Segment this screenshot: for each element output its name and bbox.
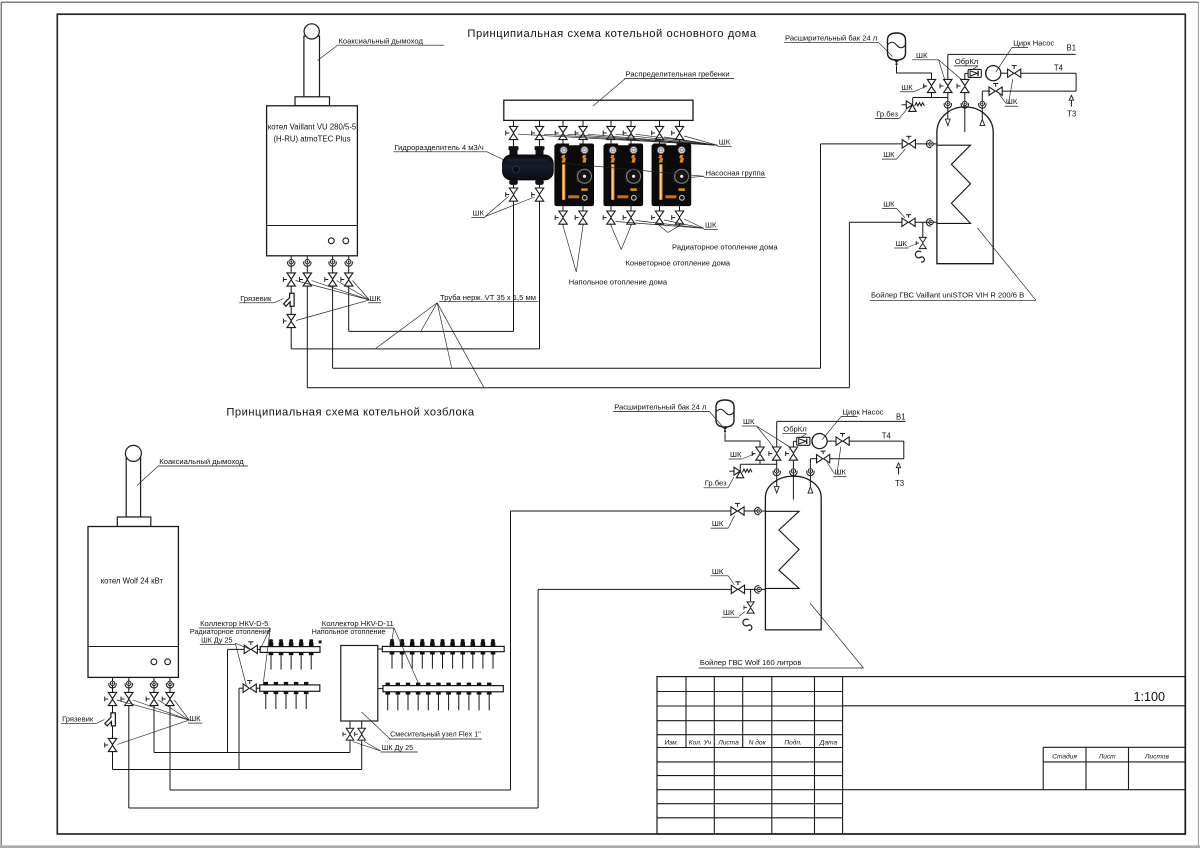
run to mixing right bbox=[113, 769, 362, 771]
collector outlet bbox=[284, 691, 289, 694]
collector knob bbox=[440, 639, 445, 646]
valve below dirt trap bbox=[283, 314, 295, 327]
collector knob bbox=[390, 639, 395, 646]
collector outlet bbox=[289, 652, 294, 655]
dirt trap Грязевик (top) bbox=[284, 293, 295, 306]
collector knob bbox=[279, 639, 284, 646]
manifold stub pipe bbox=[679, 120, 681, 143]
svg-text:(H-RU) atmoTEC Plus: (H-RU) atmoTEC Plus bbox=[273, 135, 350, 144]
valve ШК under separator left bbox=[506, 188, 518, 201]
valve ШК module outlet bbox=[672, 211, 684, 224]
collector cap bbox=[416, 683, 420, 686]
pump group module 3 bbox=[652, 144, 691, 206]
drain hook (top tank) bbox=[915, 251, 924, 262]
svg-text:Гидроразделитель 4 м3/ч: Гидроразделитель 4 м3/ч bbox=[395, 143, 484, 152]
cold stub into Wolf tank bbox=[776, 421, 778, 447]
svg-text:ОбрКл: ОбрКл bbox=[783, 425, 806, 434]
return loop right (bottom) bbox=[903, 441, 905, 459]
svg-text:Принципиальная схема котельн: Принципиальная схема котельной хозблока bbox=[226, 406, 475, 418]
valve ШК module outlet bbox=[575, 211, 587, 224]
svg-text:ШК: ШК bbox=[369, 294, 381, 303]
svg-text:Расширительный бак 24 л: Расширительный бак 24 л bbox=[785, 33, 877, 42]
collector cap bbox=[304, 682, 308, 685]
svg-text:B1: B1 bbox=[896, 413, 906, 422]
svg-text:котел Wolf 24 кВт: котел Wolf 24 кВт bbox=[101, 576, 164, 585]
valve ШК under manifold bbox=[506, 126, 518, 139]
svg-text:Смесительный узел Flex 1": Смесительный узел Flex 1" bbox=[390, 730, 481, 739]
collector cap bbox=[457, 683, 461, 686]
collector HKV-D-11 return bar bbox=[383, 686, 503, 692]
collector knob bbox=[410, 639, 415, 646]
svg-text:Т4: Т4 bbox=[882, 431, 892, 440]
module outlet pipe bbox=[610, 206, 612, 226]
svg-text:Подп.: Подп. bbox=[784, 739, 802, 747]
manifold stub pipe bbox=[513, 120, 515, 146]
svg-text:Кол. Уч: Кол. Уч bbox=[689, 740, 712, 747]
valve ШК expansion line bbox=[924, 79, 936, 92]
pump group module 1 bbox=[555, 144, 594, 206]
valve ШК expansion (bottom) bbox=[752, 447, 764, 460]
pump group module 2 bbox=[604, 144, 643, 206]
collector outlet bbox=[294, 691, 299, 694]
leader V to heating circuit bbox=[611, 226, 621, 250]
manifold stub pipe bbox=[562, 120, 564, 143]
collector outlet bbox=[279, 652, 284, 655]
svg-text:Расширительный бак 24 л: Расширительный бак 24 л bbox=[614, 402, 706, 411]
safety group Гр.без (bottom) bbox=[739, 464, 741, 471]
valve ШК Wolf tank lower bbox=[731, 582, 744, 594]
union bbox=[304, 259, 311, 266]
svg-text:ШК: ШК bbox=[1006, 97, 1018, 106]
outer sheet border bbox=[1, 1, 1198, 3]
valve ШК under manifold bbox=[532, 126, 544, 139]
Wolf tank coil bbox=[765, 511, 799, 588]
svg-text:ОбрКл: ОбрКл bbox=[955, 57, 978, 66]
boiler Wolf indicator lights bbox=[151, 659, 157, 665]
collector cap bbox=[264, 682, 268, 685]
pipe to safety line (bottom) bbox=[759, 460, 761, 464]
svg-text:Коаксиальный дымоход: Коаксиальный дымоход bbox=[159, 457, 244, 466]
collector HKV-D-5 supply bar bbox=[260, 647, 320, 653]
pipe from Wolf boiler bbox=[153, 677, 155, 752]
collector knob bbox=[269, 639, 274, 646]
valve below dirt trap (bottom) bbox=[105, 738, 117, 751]
svg-text:Распределительная гребенки: Распределительная гребенки bbox=[626, 69, 730, 78]
svg-text:ШК: ШК bbox=[896, 239, 908, 248]
valve ШК bbox=[121, 692, 133, 705]
hot stub from Wolf tank bbox=[792, 441, 794, 447]
collector outlet bbox=[491, 652, 496, 655]
collector knob bbox=[289, 639, 294, 646]
svg-text:1:100: 1:100 bbox=[1133, 690, 1165, 704]
module outlet pipe bbox=[659, 206, 661, 226]
hydraulic separator caps bottom bbox=[510, 180, 518, 185]
svg-text:Грязевик: Грязевик bbox=[62, 714, 94, 723]
svg-text:Конветорное отопление дома: Конветорное отопление дома bbox=[626, 259, 731, 268]
riser to Wolf tank upper bbox=[510, 511, 512, 790]
pipe run to tank lower bbox=[307, 387, 849, 389]
collector outlet bbox=[274, 691, 279, 694]
union tank lower bbox=[926, 219, 933, 226]
run to Wolf tank upper bbox=[170, 789, 511, 791]
cold water stub into tank bbox=[947, 54, 949, 79]
svg-text:Грязевик: Грязевик bbox=[240, 294, 272, 303]
collector outlet bbox=[269, 652, 274, 655]
valve ШК under manifold bbox=[652, 126, 664, 139]
svg-text:Изм.: Изм. bbox=[664, 740, 678, 747]
collector outlet bbox=[481, 652, 486, 655]
collector cap bbox=[294, 682, 298, 685]
boiler Vaillant body bbox=[267, 106, 358, 256]
mixing to collector2 stubs bbox=[378, 648, 383, 650]
svg-text:Дата: Дата bbox=[819, 740, 838, 747]
collector cap bbox=[446, 683, 450, 686]
collector cap bbox=[386, 683, 390, 686]
expansion tank (bottom) bbox=[716, 400, 734, 432]
expansion tank pipe (bottom) bbox=[725, 433, 760, 448]
valve ШК return (bottom) bbox=[817, 451, 830, 463]
boiler Vaillant indicator lights bbox=[328, 238, 334, 244]
svg-text:Цирк Насос: Цирк Насос bbox=[1013, 38, 1054, 47]
collector knob bbox=[299, 639, 304, 646]
collector outlet bbox=[456, 692, 461, 695]
mixing unit outlet pipes bbox=[349, 721, 351, 753]
valve ШК bbox=[162, 692, 174, 705]
valve ШК module outlet bbox=[555, 211, 567, 224]
valve ШК bbox=[325, 273, 337, 286]
svg-text:ШК: ШК bbox=[883, 150, 895, 159]
valve ШК under manifold bbox=[672, 126, 684, 139]
collector outlet bbox=[400, 652, 405, 655]
collector knob bbox=[481, 639, 486, 646]
boiler Wolf pedestal bbox=[117, 517, 151, 527]
tank lower connection pipe bbox=[849, 221, 937, 223]
pipe from Wolf boiler bbox=[112, 677, 114, 769]
svg-text:Коаксиальный дымоход: Коаксиальный дымоход bbox=[339, 36, 424, 45]
boiler Vaillant chimney tube bbox=[304, 36, 320, 97]
svg-text:N док: N док bbox=[749, 739, 767, 747]
union bbox=[125, 681, 132, 688]
svg-text:B1: B1 bbox=[1067, 44, 1077, 53]
svg-text:Т3: Т3 bbox=[1067, 110, 1076, 119]
svg-text:ШК: ШК bbox=[189, 714, 201, 723]
collector HKV-D-5 return bar bbox=[260, 685, 320, 691]
collector outlet bbox=[416, 692, 421, 695]
expansion tank (top) bbox=[888, 33, 906, 65]
collector knob bbox=[491, 639, 496, 646]
T3 arrow (top) bbox=[1070, 99, 1072, 107]
riser to Wolf tank lower bbox=[537, 589, 539, 808]
pipe run to tank upper bbox=[333, 367, 821, 369]
run to Wolf tank lower bbox=[129, 807, 538, 809]
module outlet pipe bbox=[630, 206, 632, 226]
module outlet pipe bbox=[562, 206, 564, 226]
union tank upper bbox=[926, 140, 933, 147]
collector outlet bbox=[446, 692, 451, 695]
svg-text:ШК: ШК bbox=[883, 199, 895, 208]
collector knob bbox=[430, 639, 435, 646]
svg-text:Т4: Т4 bbox=[1054, 63, 1064, 72]
valve return collector1 bbox=[239, 687, 244, 689]
collector outlet bbox=[309, 652, 314, 655]
svg-text:ШК: ШК bbox=[835, 468, 847, 477]
union Wolf tank upper bbox=[755, 507, 762, 514]
boiler Wolf panel line bbox=[88, 646, 178, 648]
return into tank stub bbox=[982, 90, 990, 92]
valve ШК under manifold bbox=[575, 126, 587, 139]
hot water stub from tank bbox=[964, 73, 966, 79]
svg-text:ШК: ШК bbox=[473, 209, 485, 218]
riser collector1 return bbox=[238, 688, 240, 769]
svg-text:Листов: Листов bbox=[1144, 753, 1170, 760]
valve ШК Wolf tank upper bbox=[731, 503, 744, 515]
manifold stub pipe bbox=[610, 120, 612, 143]
pipe from Wolf boiler bbox=[169, 677, 171, 790]
dirt trap Грязевик (bottom) bbox=[105, 713, 116, 726]
union bbox=[345, 259, 352, 266]
svg-text:ШК: ШК bbox=[743, 417, 755, 426]
svg-text:ШК: ШК bbox=[901, 83, 913, 92]
svg-text:Листа: Листа bbox=[717, 740, 739, 747]
leader V to heating circuit bbox=[563, 226, 576, 272]
svg-text:ШК Ду 25: ШК Ду 25 bbox=[382, 743, 413, 752]
collector outlet bbox=[426, 692, 431, 695]
svg-text:Труба нерж. VT 35 х 1,5 мм: Труба нерж. VT 35 х 1,5 мм bbox=[440, 293, 536, 302]
chimney cap circle bbox=[304, 24, 319, 39]
safety group Гр.без (top) bbox=[912, 98, 914, 106]
distribution manifold bbox=[504, 100, 693, 120]
collector outlet bbox=[264, 691, 269, 694]
chimney cap circle (Wolf) bbox=[125, 445, 141, 461]
collector outlet bbox=[304, 691, 309, 694]
svg-text:Стадия: Стадия bbox=[1052, 752, 1077, 760]
collector outlet bbox=[396, 692, 401, 695]
svg-text:ШК: ШК bbox=[916, 51, 928, 60]
union bbox=[150, 681, 157, 688]
collector outlet bbox=[390, 652, 395, 655]
title block outline bbox=[657, 677, 1185, 834]
manifold stub pipe bbox=[582, 120, 584, 143]
title block rows left bbox=[657, 691, 843, 693]
valve ШК under manifold bbox=[623, 126, 635, 139]
collector knob bbox=[450, 639, 455, 646]
check valve ОбрКл (bottom) bbox=[797, 437, 810, 445]
svg-text:Гр.без: Гр.без bbox=[876, 110, 898, 119]
collector cap bbox=[406, 683, 410, 686]
Wolf tank drain pipe bbox=[750, 589, 752, 601]
svg-text:ШК: ШК bbox=[730, 450, 742, 459]
valve ШК drain (top tank) bbox=[916, 237, 926, 248]
svg-text:ШК: ШК bbox=[705, 220, 717, 229]
svg-text:Принципиальная схема котельн: Принципиальная схема котельной основного… bbox=[467, 28, 756, 40]
boiler Vaillant pedestal bbox=[295, 97, 330, 106]
manifold stub pipe bbox=[630, 120, 632, 143]
svg-text:Бойлер ГВС Vaillant uniSTOR VI: Бойлер ГВС Vaillant uniSTOR VIH R 200/6 … bbox=[871, 291, 1024, 300]
valve ШК after pump (bottom) bbox=[827, 440, 836, 442]
valve ШК module outlet bbox=[603, 211, 615, 224]
riser collector1 supply bbox=[227, 649, 229, 752]
union bbox=[288, 259, 295, 266]
hydraulic separator body bbox=[503, 155, 554, 180]
valve ШК bbox=[105, 692, 117, 705]
circulation pump (bottom) bbox=[812, 434, 827, 449]
valve ШК return (top) bbox=[989, 84, 1002, 96]
circulation pump (top) bbox=[986, 66, 1001, 81]
svg-text:Т3: Т3 bbox=[895, 479, 904, 488]
pipe from boiler bbox=[290, 256, 292, 349]
pipe from boiler bbox=[348, 256, 350, 332]
B1 line (bottom) bbox=[777, 420, 905, 422]
hydraulic separator stacks top bbox=[509, 147, 518, 150]
return into Wolf tank stub bbox=[810, 458, 817, 460]
collector cap bbox=[284, 682, 288, 685]
tank upper connection pipe bbox=[821, 143, 937, 145]
collector cap bbox=[426, 683, 430, 686]
Wolf tank lower connection bbox=[538, 588, 765, 590]
collector end dot bbox=[319, 641, 322, 644]
valve ШК tank upper bbox=[902, 136, 915, 148]
collector outlet bbox=[420, 652, 425, 655]
collector outlet bbox=[471, 652, 476, 655]
svg-text:ШК: ШК bbox=[712, 519, 724, 528]
svg-text:Бойлер ГВС Wolf 160 литров: Бойлер ГВС Wolf 160 литров bbox=[700, 658, 802, 667]
T3 arrow (bottom) bbox=[898, 467, 900, 475]
collector outlet bbox=[436, 692, 441, 695]
pipe from boiler bbox=[332, 256, 334, 368]
collector outlet bbox=[467, 692, 472, 695]
boiler Wolf chimney tube bbox=[126, 458, 140, 517]
valve ШК bbox=[283, 273, 295, 286]
union bbox=[329, 259, 336, 266]
union bbox=[109, 681, 116, 688]
valve ШК module outlet bbox=[652, 211, 664, 224]
mixing unit box bbox=[341, 646, 378, 722]
title block columns bbox=[685, 677, 687, 748]
pipe run to separator left bbox=[349, 330, 514, 332]
run to mixing left bbox=[154, 752, 350, 754]
collector outlet bbox=[440, 652, 445, 655]
valve ШК under separator right bbox=[532, 188, 544, 201]
collector cap bbox=[436, 683, 440, 686]
valve ШК mixing right bbox=[355, 728, 366, 740]
T4 line (bottom) bbox=[849, 440, 904, 442]
T4 line (top) bbox=[1021, 72, 1076, 74]
return loop right (top) bbox=[1075, 73, 1077, 91]
module outlet pipe bbox=[582, 206, 584, 226]
Wolf tank upper connection bbox=[511, 510, 766, 512]
title block rows right bbox=[843, 705, 1186, 707]
manifold stub pipe bbox=[659, 120, 661, 143]
collector outlet bbox=[430, 652, 435, 655]
collector knob bbox=[420, 639, 425, 646]
svg-text:ШК: ШК bbox=[723, 608, 735, 617]
drain hook (Wolf tank) bbox=[743, 619, 752, 630]
collector knob bbox=[400, 639, 405, 646]
collector cap bbox=[487, 683, 491, 686]
pipe to safety group line bbox=[931, 92, 933, 97]
valve ШК after pump (top) bbox=[1001, 72, 1008, 74]
collector outlet bbox=[477, 692, 482, 695]
collector knob bbox=[471, 639, 476, 646]
module outlet pipe bbox=[679, 206, 681, 226]
collector outlet bbox=[460, 652, 465, 655]
union bbox=[166, 681, 173, 688]
boiler Vaillant panel line bbox=[267, 225, 358, 227]
valve ШК under manifold bbox=[555, 126, 567, 139]
valve ШК tank lower bbox=[902, 215, 915, 227]
valve ШК bbox=[146, 692, 158, 705]
collector outlet bbox=[406, 692, 411, 695]
pipe from Wolf boiler bbox=[128, 677, 130, 808]
svg-text:Напольное отопление: Напольное отопление bbox=[312, 627, 386, 636]
collector HKV-D-11 supply bar bbox=[382, 646, 504, 651]
collector knob bbox=[309, 639, 314, 646]
svg-text:Напольное отопление дома: Напольное отопление дома bbox=[569, 277, 668, 286]
pipe run to separator right bbox=[291, 348, 539, 350]
tank coil bbox=[937, 145, 971, 223]
svg-text:ШК Ду 25: ШК Ду 25 bbox=[201, 635, 232, 644]
valve ШК drain (Wolf tank) bbox=[744, 602, 754, 613]
check valve ОбрКл (top) bbox=[968, 69, 981, 77]
expansion tank pipe bbox=[897, 66, 932, 80]
B1 line (top) bbox=[948, 53, 1076, 55]
collector cap bbox=[477, 683, 481, 686]
valve supply collector1 bbox=[228, 648, 245, 650]
svg-text:котел Vaillant VU 280/5-5: котел Vaillant VU 280/5-5 bbox=[268, 123, 357, 132]
DHW tank Wolf bbox=[765, 476, 821, 630]
collector cap bbox=[396, 683, 400, 686]
svg-text:ШК: ШК bbox=[712, 567, 724, 576]
manifold stub pipe bbox=[539, 120, 541, 146]
svg-text:Радиаторное отопление дома: Радиаторное отопление дома bbox=[672, 242, 778, 251]
DHW tank Vaillant uniSTOR bbox=[937, 107, 993, 264]
tank drain pipe bbox=[922, 222, 924, 237]
collector cap bbox=[467, 683, 471, 686]
svg-text:Лист: Лист bbox=[1098, 753, 1116, 760]
leader V to heating circuit bbox=[660, 226, 669, 233]
valve ШК under manifold bbox=[603, 126, 615, 139]
svg-text:Цирк Насос: Цирк Насос bbox=[842, 407, 883, 416]
collector outlet bbox=[299, 652, 304, 655]
valve ШК mixing left bbox=[343, 728, 354, 740]
union Wolf tank lower bbox=[755, 586, 762, 593]
boiler Wolf body bbox=[88, 527, 178, 678]
collector knob bbox=[460, 639, 465, 646]
svg-text:Насосная группа: Насосная группа bbox=[706, 168, 766, 177]
svg-text:Гр.без: Гр.без bbox=[705, 479, 727, 488]
valve ШК bbox=[341, 273, 353, 286]
pipe from boiler bbox=[306, 256, 308, 388]
collector outlet bbox=[450, 652, 455, 655]
collector outlet bbox=[410, 652, 415, 655]
collector outlet bbox=[487, 692, 492, 695]
collector outlet bbox=[385, 692, 390, 695]
collector cap bbox=[274, 682, 278, 685]
svg-text:ШК: ШК bbox=[719, 137, 731, 146]
valve ШК module outlet bbox=[623, 211, 635, 224]
separator bottom pipes bbox=[513, 185, 515, 332]
valve ШК bbox=[300, 273, 312, 286]
